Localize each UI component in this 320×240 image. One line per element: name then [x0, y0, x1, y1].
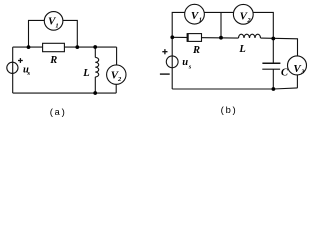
- svg-text:(b): (b): [220, 105, 237, 116]
- svg-text:C: C: [281, 68, 289, 79]
- svg-text:R: R: [49, 55, 57, 66]
- svg-text:2: 2: [246, 17, 251, 24]
- svg-text:1: 1: [55, 23, 58, 30]
- svg-text:L: L: [82, 68, 89, 79]
- svg-text:3: 3: [300, 69, 305, 76]
- svg-text:1: 1: [199, 17, 202, 24]
- svg-text:u: u: [182, 57, 188, 68]
- svg-text:(a): (a): [49, 107, 66, 118]
- svg-text:R: R: [192, 45, 200, 56]
- svg-text:L: L: [238, 44, 245, 55]
- svg-text:s: s: [188, 64, 192, 71]
- svg-text:s: s: [27, 70, 31, 77]
